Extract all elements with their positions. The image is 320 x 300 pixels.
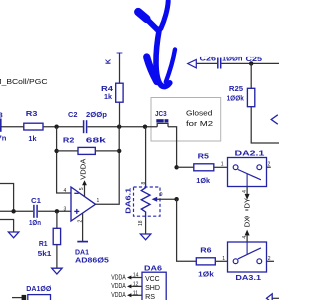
svg-text:SHD: SHD xyxy=(145,283,160,292)
svg-text:14: 14 xyxy=(133,273,139,279)
svg-text:R3: R3 xyxy=(26,109,38,118)
node junction at 176.6,167.3 xyxy=(174,165,178,169)
svg-text:1: 1 xyxy=(222,256,225,262)
node junction at 145,126.7 xyxy=(143,125,147,129)
svg-text:11: 11 xyxy=(133,291,138,297)
resistor R6 xyxy=(196,258,215,265)
resistor R1 xyxy=(53,228,60,244)
ground xyxy=(52,268,62,274)
svg-text:R1: R1 xyxy=(39,239,48,248)
node junction at 176.6,199.2 xyxy=(174,197,178,201)
svg-text:VCC: VCC xyxy=(145,274,160,283)
svg-text:C1: C1 xyxy=(31,196,42,205)
svg-text:1Øk: 1Øk xyxy=(196,176,211,185)
capacitor C2 xyxy=(83,120,85,133)
analog switch DA3.1 xyxy=(228,242,267,272)
wire C3 to R3 xyxy=(2,126,24,128)
wire stub upper-left into C1 node xyxy=(0,184,14,212)
ground xyxy=(140,234,150,240)
svg-text:3: 3 xyxy=(0,111,3,120)
svg-text:1Øn: 1Øn xyxy=(29,218,41,227)
svg-text:DA6: DA6 xyxy=(144,263,162,272)
svg-text:R5: R5 xyxy=(198,152,210,161)
node junction at 119.2,126.7 xyxy=(117,125,121,129)
ground xyxy=(8,232,18,238)
svg-text:5k1: 5k1 xyxy=(38,249,53,258)
svg-text:2: 2 xyxy=(77,220,83,223)
node junction at 119.2,150.9 xyxy=(117,149,121,153)
net arrow right edge xyxy=(271,115,278,124)
svg-text:DA2.1: DA2.1 xyxy=(235,148,266,157)
svg-text:1k: 1k xyxy=(104,92,113,101)
svg-text:Glosed: Glosed xyxy=(186,109,212,118)
svg-text:2: 2 xyxy=(268,162,271,168)
wire R4 to node xyxy=(119,102,121,127)
svg-text:VDDA: VDDA xyxy=(111,290,126,299)
feedback wire vertical xyxy=(96,127,120,205)
pin 14 VCC xyxy=(131,277,142,279)
svg-text:4: 4 xyxy=(64,188,67,194)
resistor R25 xyxy=(247,88,254,106)
svg-text:18: 18 xyxy=(138,220,144,226)
svg-text:K: K xyxy=(104,58,113,64)
DA3.1 pin2 stub xyxy=(267,260,275,262)
svg-text:VDDA: VDDA xyxy=(111,281,126,290)
DA3.1 pin4 control xyxy=(246,236,248,242)
pin 12 SHD xyxy=(131,285,142,287)
op-amp pin 2 to analog gnd xyxy=(82,213,84,241)
svg-text:DA6.1: DA6.1 xyxy=(124,187,133,214)
pin 11 RS xyxy=(131,294,142,296)
svg-text:9: 9 xyxy=(160,192,163,198)
DA2.1 pin2 stub xyxy=(267,166,271,168)
wire left ground stub xyxy=(0,220,14,232)
wire node to R25 xyxy=(250,63,252,88)
svg-text:DY: DY xyxy=(242,198,251,209)
svg-text:VDDA: VDDA xyxy=(111,272,126,281)
svg-text:C2: C2 xyxy=(68,110,78,119)
svg-text:5: 5 xyxy=(79,187,85,190)
svg-text:VDDA: VDDA xyxy=(79,158,88,180)
svg-text:2ØØp: 2ØØp xyxy=(86,110,107,119)
bottom right net arrow xyxy=(272,297,280,299)
svg-text:JC3: JC3 xyxy=(155,109,167,118)
svg-text:AD86Ø5: AD86Ø5 xyxy=(75,255,110,264)
svg-text:2: 2 xyxy=(268,256,271,262)
wire K to R4 xyxy=(119,58,121,83)
svg-text:8: 8 xyxy=(141,182,147,185)
svg-text:1: 1 xyxy=(221,162,224,168)
svg-text:1k: 1k xyxy=(28,134,37,143)
R2 branch wires xyxy=(57,127,71,193)
svg-text:for M2: for M2 xyxy=(186,119,213,128)
resistor R2 xyxy=(78,147,95,154)
svg-text:RS: RS xyxy=(145,292,155,300)
jumper JC3 xyxy=(157,123,168,126)
wiper arrow pin 9 xyxy=(152,197,158,202)
node junction at 56.6,126.7 xyxy=(54,125,58,129)
svg-text:DA3.1: DA3.1 xyxy=(235,273,262,282)
svg-text:R6: R6 xyxy=(200,245,211,254)
DA2.1 pin4 control xyxy=(246,187,248,195)
svg-text:7n: 7n xyxy=(0,134,7,143)
op-amp power pin 5 VDDA xyxy=(84,185,86,196)
gray frame box around JC3 xyxy=(151,98,221,142)
svg-text:DX: DX xyxy=(242,217,251,228)
wire C2 to jumper xyxy=(88,126,158,128)
svg-text:DA1ØØ: DA1ØØ xyxy=(26,284,51,293)
resistor R5 xyxy=(194,164,214,171)
wire left edge to C1 xyxy=(0,210,33,212)
svg-text:1ØØk: 1ØØk xyxy=(227,93,245,102)
svg-text:4: 4 xyxy=(242,236,248,239)
wire node to R5 xyxy=(177,166,194,168)
wire R25 down and right xyxy=(251,107,279,143)
wire C1 to op-amp pin3 xyxy=(38,210,71,212)
op-amp DA1 xyxy=(71,187,96,221)
svg-text:1: 1 xyxy=(97,198,100,204)
svg-text:R25: R25 xyxy=(229,84,244,93)
svg-text:12: 12 xyxy=(133,282,139,288)
wire node to R1 xyxy=(56,211,58,228)
white mask cutting label tops xyxy=(197,40,280,57)
resistor R3 xyxy=(24,123,43,130)
svg-text:68k: 68k xyxy=(86,136,107,145)
digital pot DA6.1 xyxy=(134,187,161,216)
svg-text:4: 4 xyxy=(242,190,248,193)
svg-text:3: 3 xyxy=(64,206,67,212)
capacitor C1 xyxy=(33,205,35,218)
svg-text:M_BColl/PGC: M_BColl/PGC xyxy=(0,77,48,86)
wire R2 to feedback node xyxy=(95,150,119,152)
svg-text:R2: R2 xyxy=(63,136,74,145)
wire JC3-node down to DA6.1 xyxy=(145,127,147,184)
wire jumper to R5 xyxy=(168,127,177,168)
wire R5 to DA2.1 pin1 xyxy=(214,166,228,168)
wire R1 to ground xyxy=(56,245,58,268)
svg-text:1Øk: 1Øk xyxy=(198,270,214,279)
wire DA6.1 to ground xyxy=(145,217,147,234)
wire R6 to DA3.1 xyxy=(215,260,227,262)
resistor R4 xyxy=(116,83,123,102)
blue marker scribble xyxy=(138,12,146,19)
wire R3 to C2 xyxy=(43,126,83,128)
top right net: arrow, C26, C25 xyxy=(188,59,197,68)
wire down to R6 xyxy=(177,199,197,261)
